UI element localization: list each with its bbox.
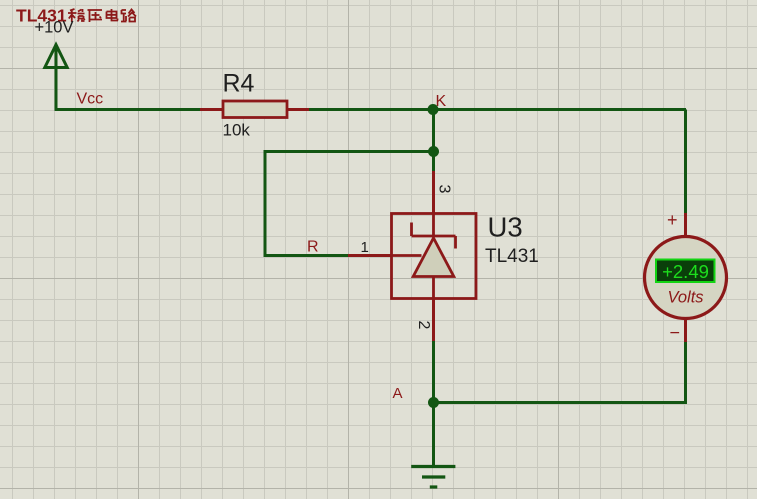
wire meter minus terminal stub — [684, 318, 687, 342]
wire right vertical down to meter — [684, 110, 687, 214]
power terminal +10V arrow — [45, 45, 67, 110]
junction node K — [428, 104, 439, 115]
svg-text:+2.49: +2.49 — [662, 261, 709, 282]
title TL431 regulator label — [16, 6, 67, 26]
wire feedback left vertical — [264, 150, 267, 256]
voltmeter body — [645, 237, 727, 319]
title CJK char dian (electric) — [107, 9, 119, 21]
wire meter plus terminal stub — [684, 213, 687, 237]
svg-text:R: R — [307, 239, 319, 256]
label Vcc — [77, 91, 104, 108]
wire R4 left pin stub — [200, 108, 223, 111]
U3 internal cathode lead — [432, 214, 435, 237]
U3 internal cathode bar with zener ticks — [412, 223, 456, 249]
+10V supply value label — [35, 19, 74, 37]
wire U3 pin 2 stub — [432, 299, 435, 342]
U3 internal reference lead — [392, 254, 422, 257]
resistor R4 body — [223, 101, 287, 118]
svg-text:R4: R4 — [223, 70, 255, 98]
title CJK char lu (road) — [121, 10, 136, 22]
svg-text:+10V: +10V — [35, 19, 74, 37]
wire U3 pin 3 stub — [432, 171, 435, 214]
wire feedback top horizontal — [265, 150, 434, 153]
wire feedback bottom horizontal — [264, 254, 349, 257]
title CJK char ya (pressure) — [88, 10, 103, 22]
svg-text:A: A — [393, 385, 403, 402]
wire meter bottom vertical — [684, 341, 687, 404]
U3 internal anode lead — [432, 277, 435, 299]
svg-text:−: − — [670, 323, 681, 343]
svg-text:+: + — [667, 210, 678, 230]
wire node K horizontal — [309, 108, 686, 111]
svg-text:U3: U3 — [488, 212, 523, 243]
title CJK char wen (stable) — [68, 9, 85, 22]
wire K down to feedback junction — [432, 110, 435, 172]
op-amp U3 TL431 body box — [392, 214, 477, 299]
voltmeter LCD display — [656, 260, 715, 283]
svg-text:Vcc: Vcc — [77, 91, 104, 108]
svg-text:2: 2 — [415, 321, 432, 330]
svg-text:3: 3 — [436, 185, 453, 194]
wire U3 pin 1 stub — [348, 254, 391, 257]
wire Vcc horizontal to R4 — [55, 108, 201, 111]
junction node A — [428, 397, 439, 408]
svg-text:10k: 10k — [223, 121, 251, 140]
wire R4 right pin stub — [287, 108, 309, 111]
svg-text:1: 1 — [361, 239, 369, 256]
ground symbol — [411, 467, 455, 488]
U3 internal triangle — [413, 238, 454, 277]
wire pin 2 to node A — [432, 341, 435, 466]
junction feedback node — [428, 146, 439, 157]
svg-text:TL431: TL431 — [485, 246, 539, 267]
svg-text:Volts: Volts — [667, 289, 703, 307]
wire node A to meter bottom — [434, 401, 688, 404]
